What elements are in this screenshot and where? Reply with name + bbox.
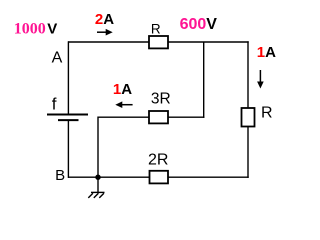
- wire: right side, top-right corner down to resistor R: [247, 41, 249, 108]
- resistor 3R (middle): [149, 111, 168, 123]
- wire: right side, resistor R down to bottom-right corner: [247, 127, 249, 178]
- wire: vertical drop from middle branch through node B wire to ground: [97, 117, 99, 193]
- svg-text:R: R: [151, 22, 161, 37]
- ground symbol: horizontal bar: [91, 191, 105, 193]
- svg-text:3R: 3R: [151, 90, 171, 107]
- wire: top side, resistor R to top-right corner: [168, 41, 249, 43]
- svg-text:600V: 600V: [180, 16, 218, 33]
- resistor R (top): [149, 36, 168, 48]
- resistor R (right, vertical): [242, 108, 255, 127]
- svg-text:1A: 1A: [257, 44, 276, 61]
- wire: middle branch, left corner to resistor 3R: [98, 116, 149, 118]
- current arrow for right 1A, pointing down: [259, 70, 261, 84]
- svg-text:B: B: [55, 167, 65, 184]
- wire: top side, node A to resistor R: [68, 41, 149, 43]
- wire: vertical riser from top wire down to middle branch: [203, 42, 205, 118]
- ground symbol: hatch slash 1: [88, 193, 93, 198]
- wire: left side, battery bottom plate down to node B: [67, 120, 69, 178]
- wire: bottom side, resistor 2R to bottom-right corner: [168, 176, 249, 178]
- svg-text:1A: 1A: [113, 81, 132, 98]
- svg-text:2R: 2R: [148, 151, 168, 168]
- battery cell f: long top plate: [47, 114, 88, 116]
- resistor 2R (bottom): [150, 171, 169, 184]
- ground symbol: hatch slash 2: [94, 193, 99, 198]
- svg-text:1000V: 1000V: [14, 21, 58, 38]
- current arrow for middle 1A, pointing left: [121, 104, 133, 106]
- battery cell f: short bottom plate: [58, 119, 79, 121]
- wire: bottom side, node B to resistor 2R: [68, 176, 150, 178]
- wire: middle branch, resistor 3R to riser: [168, 116, 204, 118]
- svg-text:2A: 2A: [95, 11, 114, 28]
- svg-text:R: R: [261, 105, 273, 122]
- ground symbol: hatch slash 3: [99, 193, 104, 198]
- current arrow for 2A, pointing right: [97, 31, 109, 33]
- svg-text:A: A: [52, 50, 63, 67]
- svg-text:f: f: [52, 94, 57, 113]
- wire: left side, node A down to battery top plate: [67, 41, 69, 114]
- junction dot at bottom wire and ground drop: [95, 175, 100, 180]
